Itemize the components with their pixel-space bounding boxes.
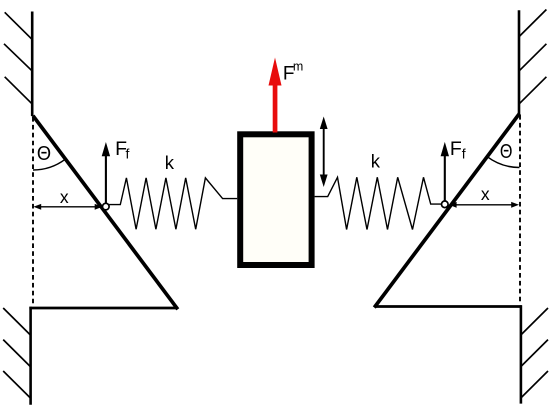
svg-text:k: k bbox=[371, 151, 381, 172]
left spring k bbox=[109, 178, 237, 229]
right spring k bbox=[315, 177, 442, 229]
svg-text:F: F bbox=[450, 138, 462, 160]
left lower wall bbox=[29, 307, 32, 405]
left friction force arrow Ff bbox=[102, 142, 110, 206]
applied force arrow Fm bbox=[269, 58, 282, 133]
svg-text:f: f bbox=[126, 145, 130, 161]
right angle arc bbox=[487, 157, 519, 168]
right roller pivot bbox=[442, 201, 449, 208]
left roller pivot bbox=[103, 203, 110, 210]
svg-text:m: m bbox=[293, 60, 303, 74]
svg-text:Θ: Θ bbox=[500, 141, 513, 163]
left angle arc bbox=[33, 159, 65, 170]
right x dimension arrow bbox=[449, 202, 519, 208]
svg-text:x: x bbox=[60, 187, 69, 207]
left dashed reference line bbox=[32, 117, 34, 304]
right upper wall bbox=[518, 10, 521, 114]
left upper wall hatching bbox=[4, 12, 32, 104]
svg-text:Θ: Θ bbox=[37, 143, 51, 165]
displacement double arrow bbox=[320, 117, 328, 188]
mass block bbox=[240, 134, 311, 265]
left incline bbox=[33, 116, 178, 310]
left x dimension arrow bbox=[33, 204, 102, 210]
right friction force arrow Ff bbox=[441, 142, 449, 203]
right wedge bottom edge bbox=[375, 305, 522, 308]
right lower wall hatching bbox=[521, 308, 548, 398]
left upper wall bbox=[31, 12, 34, 117]
svg-text:x: x bbox=[481, 184, 490, 204]
left lower wall hatching bbox=[3, 308, 30, 398]
right dashed reference line bbox=[519, 115, 521, 304]
right lower wall bbox=[520, 305, 523, 403]
svg-text:f: f bbox=[462, 145, 466, 161]
right upper wall hatching bbox=[519, 10, 546, 104]
left wedge bottom edge bbox=[29, 307, 177, 310]
svg-text:k: k bbox=[165, 152, 175, 173]
right incline bbox=[374, 114, 519, 308]
